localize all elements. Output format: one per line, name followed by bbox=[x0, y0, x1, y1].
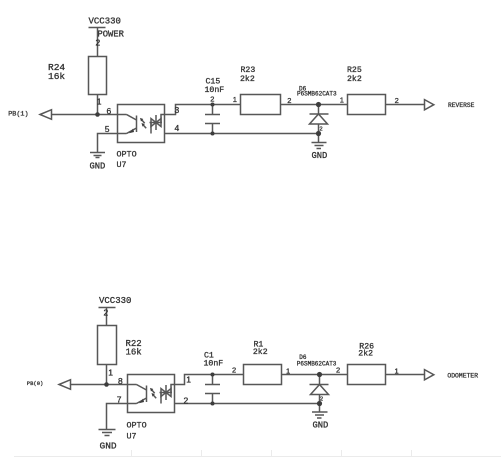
svg-text:1: 1 bbox=[340, 96, 344, 105]
svg-text:2k2: 2k2 bbox=[347, 74, 362, 84]
svg-text:1: 1 bbox=[233, 95, 237, 104]
svg-text:REVERSE: REVERSE bbox=[448, 102, 475, 109]
svg-text:7: 7 bbox=[117, 395, 122, 405]
svg-text:2: 2 bbox=[210, 95, 214, 104]
svg-text:16k: 16k bbox=[48, 71, 65, 82]
svg-text:2k2: 2k2 bbox=[240, 74, 255, 84]
svg-text:PB(0): PB(0) bbox=[27, 380, 44, 387]
svg-text:2k2: 2k2 bbox=[358, 349, 373, 359]
svg-text:GND: GND bbox=[100, 441, 117, 452]
svg-text:2k2: 2k2 bbox=[253, 347, 268, 357]
svg-text:2: 2 bbox=[320, 397, 323, 403]
svg-text:2: 2 bbox=[287, 96, 291, 105]
svg-text:2: 2 bbox=[395, 96, 399, 105]
svg-text:5: 5 bbox=[105, 124, 110, 134]
svg-text:2: 2 bbox=[96, 38, 101, 48]
svg-text:4: 4 bbox=[175, 123, 180, 133]
svg-text:GND: GND bbox=[90, 162, 106, 172]
svg-text:POWER: POWER bbox=[98, 30, 125, 40]
svg-text:2: 2 bbox=[336, 366, 340, 375]
svg-text:1: 1 bbox=[108, 368, 113, 378]
svg-text:U7: U7 bbox=[127, 432, 137, 442]
svg-text:OPTO: OPTO bbox=[117, 150, 137, 160]
svg-text:U7: U7 bbox=[117, 160, 127, 170]
svg-text:10nF: 10nF bbox=[204, 359, 224, 368]
svg-text:1: 1 bbox=[395, 367, 399, 376]
svg-text:P6SMB62CAT3: P6SMB62CAT3 bbox=[297, 360, 337, 367]
svg-text:VCC330: VCC330 bbox=[89, 17, 121, 27]
svg-text:GND: GND bbox=[312, 151, 328, 161]
svg-text:ODOMETER: ODOMETER bbox=[447, 372, 478, 379]
svg-text:1: 1 bbox=[97, 97, 102, 107]
svg-text:6: 6 bbox=[107, 106, 112, 116]
svg-text:1: 1 bbox=[186, 375, 191, 385]
svg-text:2: 2 bbox=[232, 366, 236, 375]
svg-text:R25: R25 bbox=[347, 66, 362, 75]
svg-text:GND: GND bbox=[313, 421, 329, 431]
svg-text:PB(1): PB(1) bbox=[8, 111, 28, 119]
svg-text:R23: R23 bbox=[241, 66, 256, 75]
svg-text:16k: 16k bbox=[126, 348, 142, 358]
svg-text:1: 1 bbox=[286, 367, 290, 376]
svg-text:OPTO: OPTO bbox=[127, 421, 147, 431]
svg-text:2: 2 bbox=[104, 308, 109, 318]
svg-text:VCC330: VCC330 bbox=[99, 296, 131, 306]
svg-text:2: 2 bbox=[184, 396, 189, 406]
svg-text:P6SMB62CAT3: P6SMB62CAT3 bbox=[297, 90, 337, 97]
svg-text:2: 2 bbox=[320, 127, 323, 133]
svg-text:3: 3 bbox=[175, 105, 180, 115]
svg-text:8: 8 bbox=[118, 376, 123, 386]
